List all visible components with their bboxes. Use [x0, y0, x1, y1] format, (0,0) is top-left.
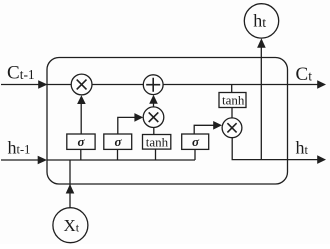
wire xt riser	[69, 160, 71, 208]
svg-text:ht: ht	[296, 138, 309, 158]
label sigma3	[192, 134, 200, 149]
label ht in circle	[253, 11, 266, 31]
gate box tanh1	[143, 135, 171, 150]
gate box sigma3	[182, 134, 209, 149]
wire tanh2 to multiply3	[231, 108, 233, 119]
node multiply1 (forget gate product)	[71, 74, 92, 95]
wire cell-state box-left to multiply1	[47, 84, 71, 86]
label Ct-1	[7, 63, 35, 84]
label sigma2	[115, 134, 123, 149]
wire sigma1 stub	[80, 149, 82, 160]
svg-text:ht: ht	[253, 11, 266, 31]
label tanh2	[222, 93, 245, 108]
wire ht-1 input	[1, 159, 38, 161]
wire sigma3 elbow to multiply3	[194, 125, 214, 134]
arrowhead ht output	[317, 155, 326, 164]
label tanh1	[146, 135, 169, 150]
label sigma1	[78, 134, 86, 149]
arrowhead into multiply2	[134, 113, 143, 122]
label Xt in circle	[64, 216, 80, 235]
svg-text:σ: σ	[115, 134, 123, 149]
label ht-1	[8, 137, 31, 157]
gate box tanh2	[219, 93, 246, 108]
node multiply2 (input gate product)	[143, 107, 164, 128]
arrowhead xt into box bottom	[66, 184, 75, 194]
arrowhead Ct-1 into box	[38, 80, 47, 89]
arrowhead Ct output	[317, 80, 326, 89]
svg-text:Ct: Ct	[296, 64, 313, 85]
arrowhead into multiply1	[77, 95, 86, 104]
wire ht branch riser	[260, 48, 262, 160]
label ht right	[296, 138, 309, 158]
gate box sigma2	[104, 134, 132, 149]
wire multiply1 to plus	[92, 84, 143, 86]
wire multiply3 to ht output	[232, 138, 317, 160]
node ht output circle	[244, 4, 278, 38]
wire multiply2 to plus	[153, 103, 155, 106]
wire plus to Ct output	[163, 84, 318, 86]
arrowhead into plus	[149, 95, 158, 104]
svg-text:σ: σ	[78, 134, 86, 149]
LSTM cell box	[47, 58, 288, 185]
wire sigma3 stub	[194, 149, 196, 160]
wire ht-1 gates bus	[47, 159, 195, 161]
gate box sigma1	[67, 134, 95, 149]
wire sigma1 to multiply1	[80, 104, 82, 134]
label Ct	[296, 64, 313, 85]
svg-text:Ct-1: Ct-1	[7, 63, 35, 84]
svg-text:σ: σ	[192, 134, 200, 149]
node plus (cell state add)	[143, 75, 163, 95]
wire tanh1 stub	[155, 149, 157, 160]
arrowhead into multiply3	[213, 121, 222, 130]
svg-text:tanh: tanh	[146, 135, 169, 150]
wire Ct-1 input	[1, 84, 39, 86]
wire tanh2 to cell-state line	[231, 85, 233, 93]
arrowhead ht-1 into box	[38, 156, 47, 165]
wire sigma2 elbow to multiply2	[118, 117, 135, 134]
wire tanh1 to multiply2	[153, 127, 155, 134]
node xt input circle	[53, 208, 88, 243]
svg-text:ht-1: ht-1	[8, 137, 31, 157]
node multiply3 (output gate product)	[222, 118, 242, 138]
arrowhead into ht node	[257, 38, 266, 48]
svg-text:Xt: Xt	[64, 216, 80, 235]
wire sigma2 stub	[117, 149, 119, 160]
svg-text:tanh: tanh	[222, 93, 245, 108]
